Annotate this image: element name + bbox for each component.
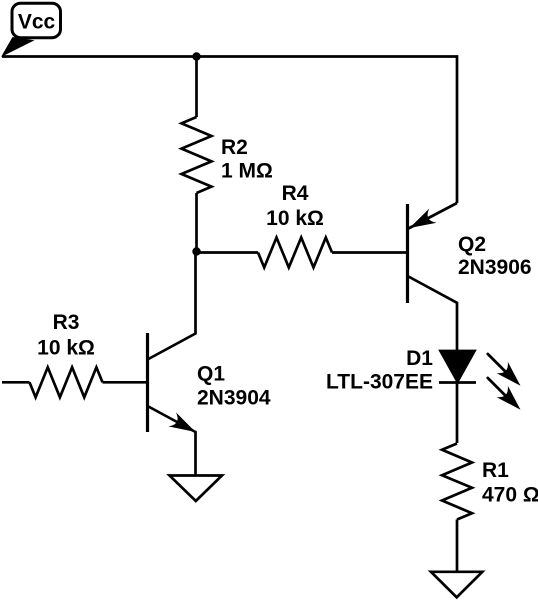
svg-text:Q1: Q1 xyxy=(197,363,225,386)
svg-text:1 MΩ: 1 MΩ xyxy=(221,160,273,183)
Vcc label bubble xyxy=(12,3,61,38)
svg-text:R4: R4 xyxy=(282,182,309,205)
LED light arrow 1 head xyxy=(496,362,520,386)
Vcc bubble tail xyxy=(1,37,35,57)
LED light arrow 1 shaft xyxy=(488,354,507,373)
transistor Q2 emitter arrow xyxy=(410,209,437,228)
svg-text:Q2: Q2 xyxy=(458,233,486,256)
wire LED to R1 xyxy=(456,383,459,444)
LED D1 triangle xyxy=(441,351,475,382)
svg-text:470 Ω: 470 Ω xyxy=(482,484,538,507)
svg-text:10 kΩ: 10 kΩ xyxy=(37,337,95,360)
wire R3 left lead xyxy=(2,381,30,384)
wire R4 to Q2 base xyxy=(332,251,408,254)
transistor Q1 emitter arrow xyxy=(168,412,195,432)
svg-text:Vcc: Vcc xyxy=(18,11,56,34)
transistor Q1 emitter xyxy=(148,406,196,475)
wire R2 bottom lead xyxy=(195,193,198,252)
transistor Q2 collector xyxy=(408,276,458,351)
wire R3 to Q1 base xyxy=(103,381,148,384)
transistor Q1 base bar xyxy=(146,333,149,432)
wire junction to R4 xyxy=(197,251,259,254)
LED light arrow 2 head xyxy=(496,386,520,410)
wire R1 to ground xyxy=(456,520,459,572)
svg-text:R1: R1 xyxy=(482,459,509,482)
svg-text:R2: R2 xyxy=(221,136,248,159)
svg-text:LTL-307EE: LTL-307EE xyxy=(326,371,433,394)
transistor Q2 emitter xyxy=(408,203,458,229)
node junction mid xyxy=(192,247,200,255)
svg-text:R3: R3 xyxy=(53,311,80,334)
LED D1 cathode bar xyxy=(439,381,476,384)
wire top rail xyxy=(2,57,457,204)
resistor R1 xyxy=(442,444,472,520)
svg-text:2N3904: 2N3904 xyxy=(197,387,271,410)
LED light arrow 2 shaft xyxy=(488,378,507,397)
svg-text:10 kΩ: 10 kΩ xyxy=(266,207,324,230)
node junction top xyxy=(192,52,200,60)
transistor Q2 base bar xyxy=(406,204,409,303)
resistor R2 xyxy=(182,117,212,193)
transistor Q1 collector xyxy=(148,252,196,360)
svg-text:2N3906: 2N3906 xyxy=(458,256,532,279)
resistor R4 xyxy=(258,238,332,268)
wire R2 top lead xyxy=(195,57,198,118)
resistor R3 xyxy=(30,367,103,397)
ground bottom right xyxy=(431,572,482,598)
svg-text:D1: D1 xyxy=(406,347,433,370)
ground under Q1 xyxy=(170,476,223,502)
